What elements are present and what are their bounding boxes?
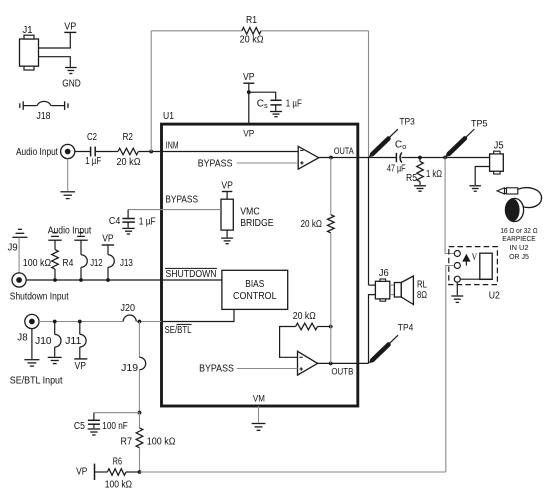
wire R2 to INM [138, 151, 161, 153]
node C5 junction [138, 411, 142, 415]
node J10 junction [53, 320, 57, 324]
label Shutdown Input [10, 292, 69, 303]
connector J1 label [23, 25, 33, 36]
ground (J9 inverted) [12, 229, 27, 237]
svg-text:R5: R5 [406, 173, 417, 184]
svg-text:100 kΩ: 100 kΩ [105, 480, 133, 491]
ground (R5) [414, 186, 426, 191]
label Audio Input [16, 147, 58, 158]
svg-text:U2: U2 [489, 290, 500, 301]
wire 20k to OUTB [330, 233, 332, 364]
IC U2 label [489, 290, 500, 301]
wire U2 contact3 to box [460, 278, 492, 280]
jumper J13 [108, 245, 133, 280]
wire J6 to OUTB vertical [369, 295, 376, 364]
wire SE/BTL [39, 321, 123, 323]
earpiece plug [497, 188, 518, 194]
earpiece cable [518, 188, 542, 208]
svg-text:R2: R2 [123, 132, 134, 143]
node R5 junction [418, 156, 422, 160]
pin label BYPASS (opamp A) [198, 158, 233, 169]
wire VP to Cs [249, 92, 276, 100]
svg-text:OR J5: OR J5 [509, 254, 529, 261]
IC U1 label [163, 111, 174, 122]
resistor R6 [105, 456, 133, 490]
resistor R7 [121, 428, 176, 472]
svg-text:U1: U1 [163, 111, 174, 122]
svg-text:1 kΩ: 1 kΩ [426, 169, 442, 180]
svg-text:VP: VP [76, 466, 87, 477]
wire BYPASS to opamp A [237, 162, 298, 164]
earpiece bud [505, 198, 523, 221]
wire OUTB [318, 362, 369, 364]
wire Co to J5 [402, 157, 490, 159]
jumper J10 [35, 322, 61, 357]
svg-text:J8: J8 [17, 333, 28, 344]
note EARPIECE [502, 236, 536, 243]
svg-text:OUTA: OUTA [334, 146, 355, 157]
wire VP to R6 [95, 471, 108, 473]
node TP5 junction [443, 156, 447, 160]
node OUTA junction [329, 156, 333, 160]
ground (J12 inverted) [74, 233, 87, 241]
svg-text:Audio Input: Audio Input [48, 226, 92, 237]
ground (R4 inverted) [48, 233, 61, 241]
power VP (J11 inverted) [74, 359, 87, 372]
wire feedback loop [280, 327, 298, 358]
svg-text:TP4: TP4 [398, 323, 414, 333]
svg-text:R6: R6 [113, 456, 123, 467]
svg-text:16 Ω or 32 Ω: 16 Ω or 32 Ω [500, 228, 537, 235]
svg-text:J19: J19 [121, 363, 138, 374]
wire feedback to node [318, 326, 331, 328]
VMC bridge box [221, 199, 274, 230]
pin label SE/BTL [165, 325, 192, 336]
wire VMC to ground [226, 230, 228, 237]
U2 element box [480, 253, 492, 279]
wire bottom rail [140, 471, 446, 473]
wire C4 to VMC [128, 209, 221, 211]
svg-text:C2: C2 [87, 132, 97, 143]
power VP (J13) [102, 234, 114, 245]
svg-text:SE/BTL Input: SE/BTL Input [10, 376, 63, 387]
node J11 junction [78, 320, 82, 324]
wire J5 to ground [475, 167, 489, 186]
U2 label V [472, 252, 478, 262]
svg-text:VMC: VMC [240, 207, 260, 218]
svg-text:VP: VP [243, 72, 255, 83]
svg-text:V: V [472, 252, 478, 262]
power VP (R6) [76, 464, 94, 480]
connector J6 label [379, 268, 389, 279]
jumper J18 [20, 101, 68, 122]
IC U1 body [162, 124, 358, 406]
shutdown input jack [12, 273, 26, 287]
test point TP4 [369, 323, 413, 364]
svg-text:J9: J9 [8, 242, 18, 253]
U2 contact 2 [454, 263, 460, 269]
ground (C5) [88, 429, 101, 435]
note IN U2 [510, 245, 529, 252]
svg-text:Shutdown Input: Shutdown Input [10, 292, 69, 303]
svg-text:R4: R4 [62, 258, 73, 269]
svg-text:VP: VP [243, 128, 254, 139]
ground (J8) [24, 360, 39, 366]
wire VM to ground [258, 406, 260, 423]
wire C2 to R2 [95, 151, 118, 153]
svg-text:1 µF: 1 µF [286, 98, 302, 109]
ground (audio jack) [60, 192, 74, 199]
audio input jack [61, 144, 75, 158]
pin label SE/BTL overline [177, 323, 192, 325]
node OUTB junction [329, 362, 333, 366]
pin label SHUTDOWN [166, 269, 217, 280]
node R6/R7 junction [138, 470, 142, 474]
capacitor C5 [74, 413, 128, 432]
wire J1 to GND [39, 57, 71, 67]
svg-text:C5: C5 [74, 421, 85, 432]
wire OUTA to 20k [330, 158, 332, 215]
svg-text:Cs: Cs [257, 99, 268, 110]
note OR J5 [509, 254, 529, 261]
wire J6 to speaker bottom [390, 294, 395, 296]
capacitor C4 [109, 210, 156, 228]
svg-text:GND: GND [62, 79, 81, 90]
test point TP3 [369, 116, 415, 157]
wire BIAS to SEBTL [162, 309, 235, 321]
resistor R2 [117, 132, 141, 168]
svg-text:OUTB: OUTB [331, 366, 353, 377]
wire INM into U1 [162, 151, 299, 153]
connector J5 [490, 151, 504, 174]
resistor R4 [23, 240, 74, 280]
svg-text:J5: J5 [494, 141, 504, 152]
wire VP to VMC [226, 192, 228, 200]
svg-text:100 kΩ: 100 kΩ [147, 437, 176, 448]
wire C5 [94, 412, 140, 414]
pin label BYPASS (opamp B) [199, 364, 234, 375]
jumper J20 [121, 303, 137, 322]
svg-text:VP: VP [221, 180, 233, 191]
U2 contact 1 [454, 251, 460, 257]
IC U2 dashed box [449, 247, 498, 285]
resistor 20k feedback [293, 311, 318, 330]
power VP (Cs) [243, 72, 255, 83]
svg-text:SE/BTL: SE/BTL [165, 325, 192, 336]
node J19 junction [138, 320, 142, 324]
svg-text:J1: J1 [23, 25, 33, 36]
op-amp U1B [298, 351, 318, 375]
wire BYPASS to opamp B [237, 368, 298, 370]
ground (J10) [48, 357, 62, 363]
wire jack to ground [67, 159, 69, 191]
node INM junction [149, 150, 153, 154]
SE/BTL input jack [25, 314, 39, 328]
svg-text:R1: R1 [246, 15, 257, 26]
svg-text:J12: J12 [90, 258, 103, 269]
svg-text:J13: J13 [120, 258, 133, 269]
svg-text:BYPASS: BYPASS [199, 364, 234, 375]
svg-text:BYPASS: BYPASS [165, 195, 198, 206]
jumper J12 [81, 240, 103, 280]
svg-text:Audio Input: Audio Input [16, 147, 58, 158]
wire shutdown [26, 279, 222, 281]
svg-text:100 nF: 100 nF [102, 421, 128, 432]
svg-text:J6: J6 [379, 268, 389, 279]
ground (VM) [252, 424, 266, 431]
connector J6 [375, 279, 389, 301]
svg-text:VP: VP [75, 361, 87, 372]
op-amp U1A [298, 146, 319, 169]
svg-text:EARPIECE: EARPIECE [502, 236, 536, 243]
jumper J11 [65, 322, 86, 359]
wire U2 contact3 to ground [456, 282, 458, 295]
wire jack to C2 [75, 151, 91, 153]
pin label OUTB [331, 366, 353, 377]
svg-text:TP3: TP3 [399, 116, 415, 126]
svg-text:TP5: TP5 [471, 119, 488, 129]
connector J5 label [494, 141, 504, 152]
pin label VP (U1 top) [243, 128, 254, 139]
ground GND (J1) [62, 68, 81, 90]
svg-text:BRIDGE: BRIDGE [240, 218, 274, 229]
resistor 20k internal [301, 215, 335, 233]
speaker RL [394, 276, 427, 305]
svg-text:R7: R7 [121, 437, 133, 448]
node feedback junction [329, 325, 333, 329]
wire OUTA to J6 pin [369, 284, 376, 286]
wire OUTA to J6 vertical [368, 157, 370, 285]
wire R6 to node [126, 471, 140, 473]
ground (U2) [451, 296, 463, 302]
svg-text:J18: J18 [37, 111, 51, 122]
wire J20 to U1 [136, 321, 161, 323]
capacitor Co [387, 140, 406, 175]
wire VP to U1 top [248, 83, 250, 124]
test point TP5 [445, 119, 487, 157]
wire J8 to ground [31, 329, 33, 359]
svg-text:VP: VP [102, 234, 114, 245]
wire R1 top left [151, 30, 242, 32]
svg-text:8Ω: 8Ω [417, 290, 427, 301]
label J8 [17, 333, 28, 344]
wire U2 contact2 to bottom rail [446, 266, 455, 472]
capacitor C2 [85, 132, 101, 167]
pin label OUTA [334, 146, 355, 157]
connector J1 [20, 35, 39, 70]
power VP (J1) [64, 22, 76, 33]
svg-text:VP: VP [64, 22, 76, 33]
pin label VM [253, 394, 265, 405]
jumper J19 [121, 357, 146, 374]
wire J6 to speaker top [390, 284, 395, 286]
label SE/BTL Input [10, 376, 63, 387]
svg-text:INM: INM [166, 141, 179, 152]
wire R1 right vertical [368, 31, 370, 158]
svg-text:100 kΩ: 100 kΩ [23, 258, 52, 269]
svg-text:IN U2: IN U2 [510, 245, 529, 252]
wire J19 vertical top [138, 322, 140, 358]
svg-text:20 kΩ: 20 kΩ [117, 157, 141, 168]
svg-text:J20: J20 [121, 303, 136, 314]
node R4 junction [53, 278, 57, 282]
wire ground to shutdown jack [18, 237, 20, 273]
svg-text:C4: C4 [109, 216, 121, 227]
resistor R1 [240, 15, 264, 45]
svg-text:47 µF: 47 µF [387, 164, 406, 175]
svg-text:J10: J10 [35, 336, 52, 347]
pin label BYPASS (U1 left) [165, 195, 198, 206]
svg-text:J11: J11 [65, 336, 82, 347]
note 16 ohm or 32 ohm [500, 228, 537, 235]
svg-text:BYPASS: BYPASS [198, 158, 233, 169]
svg-text:RL: RL [417, 279, 427, 290]
label Audio Input (2) [48, 226, 92, 237]
U2 volume arrow [462, 254, 470, 266]
node J13 junction [106, 278, 110, 282]
node J12 junction [79, 278, 83, 282]
power VP (VMC) [221, 180, 233, 191]
svg-text:1 µF: 1 µF [85, 156, 101, 167]
svg-text:20 kΩ: 20 kΩ [293, 311, 316, 322]
svg-text:BIAS: BIAS [245, 279, 264, 290]
wire R1 top right [261, 30, 369, 32]
ground (C4) [122, 228, 134, 234]
svg-text:20 kΩ: 20 kΩ [240, 35, 264, 46]
wire OUTA [319, 157, 397, 159]
resistor R5 [406, 158, 442, 186]
svg-text:SHUTDOWN: SHUTDOWN [166, 269, 217, 280]
svg-text:CONTROL: CONTROL [233, 291, 277, 302]
U2 contact 3 [454, 276, 460, 282]
svg-text:Co: Co [395, 140, 406, 151]
svg-text:1 µF: 1 µF [139, 216, 156, 227]
ground (J5) [469, 186, 481, 191]
node VP junction [247, 90, 251, 94]
label J9 [8, 242, 18, 253]
ground (VMC) [221, 238, 233, 244]
wire J19 vertical bottom [138, 370, 140, 413]
BIAS CONTROL box [222, 270, 288, 309]
wire J1 to VP [39, 33, 71, 48]
capacitor Cs [257, 98, 302, 111]
wire R1 left vertical [150, 31, 152, 152]
wire TP5 to U2 [445, 158, 454, 254]
pin label INM [166, 141, 179, 152]
pin label SHUTDOWN overline [165, 267, 217, 269]
svg-text:VM: VM [253, 394, 265, 405]
ground (Cs) [270, 112, 282, 117]
wire to R7 [139, 413, 141, 428]
svg-text:20 kΩ: 20 kΩ [301, 219, 323, 230]
